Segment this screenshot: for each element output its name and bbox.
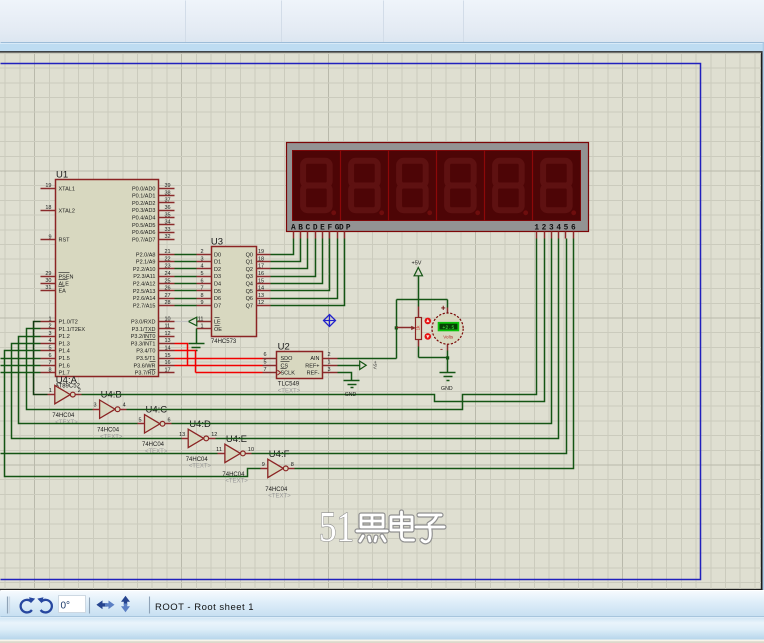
svg-text:17: 17 bbox=[258, 264, 264, 270]
svg-text:U3: U3 bbox=[211, 237, 223, 248]
svg-text:P3.7/RD: P3.7/RD bbox=[135, 371, 156, 377]
svg-text:74HC04: 74HC04 bbox=[186, 457, 209, 463]
svg-text:16: 16 bbox=[258, 271, 264, 277]
svg-text:P3.0/RXD: P3.0/RXD bbox=[131, 320, 155, 326]
svg-text:74HC04: 74HC04 bbox=[97, 428, 120, 434]
svg-text:P0.0/AD0: P0.0/AD0 bbox=[132, 186, 156, 192]
svg-text:P2.7/A15: P2.7/A15 bbox=[133, 303, 156, 309]
svg-text:F: F bbox=[327, 225, 332, 233]
svg-text:U1: U1 bbox=[56, 170, 68, 181]
svg-text:B: B bbox=[298, 225, 303, 233]
svg-text:E: E bbox=[320, 225, 325, 233]
svg-text:74HC04: 74HC04 bbox=[142, 442, 165, 448]
wire U1 P1.2 to U4:C input bbox=[19, 337, 138, 424]
wire U2 REF- to ground bbox=[338, 373, 352, 381]
ground at U3 OE bbox=[189, 344, 205, 351]
svg-text:P1.0/T2: P1.0/T2 bbox=[59, 320, 78, 326]
svg-text:P1.4: P1.4 bbox=[59, 349, 70, 355]
svg-text:13: 13 bbox=[165, 338, 171, 344]
svg-text:LE: LE bbox=[214, 320, 221, 326]
svg-text:P0.5/AD5: P0.5/AD5 bbox=[132, 223, 156, 229]
svg-text:13: 13 bbox=[179, 432, 185, 438]
svg-text:Q2: Q2 bbox=[246, 267, 253, 273]
svg-text:35: 35 bbox=[165, 212, 171, 218]
svg-text:9: 9 bbox=[262, 462, 265, 468]
svg-text:9: 9 bbox=[48, 235, 51, 241]
display DS1 6-digit 7-segment bbox=[287, 143, 589, 239]
inverter U4:C 74HC04 bbox=[138, 404, 172, 455]
svg-text:1: 1 bbox=[534, 225, 539, 233]
svg-text:D: D bbox=[339, 225, 344, 233]
svg-text:12: 12 bbox=[211, 432, 217, 438]
svg-text:P0.1/AD1: P0.1/AD1 bbox=[132, 194, 156, 200]
wire pot bottom to voltmeter minus and ground bbox=[419, 347, 450, 373]
svg-text:P3.1/TXD: P3.1/TXD bbox=[132, 327, 156, 333]
svg-text:2: 2 bbox=[328, 352, 331, 358]
svg-text:P1.6: P1.6 bbox=[59, 363, 70, 369]
ground at U2 REF- bbox=[344, 381, 360, 399]
svg-text:4: 4 bbox=[556, 225, 561, 233]
svg-text:P2.2/A10: P2.2/A10 bbox=[133, 267, 156, 273]
svg-text:Q0: Q0 bbox=[246, 252, 253, 258]
svg-text:Q7: Q7 bbox=[246, 303, 253, 309]
svg-text:XTAL2: XTAL2 bbox=[59, 208, 75, 214]
svg-text:8: 8 bbox=[48, 367, 51, 373]
svg-text:D2: D2 bbox=[214, 267, 221, 273]
svg-text:24: 24 bbox=[165, 271, 171, 277]
svg-text:<TEXT>: <TEXT> bbox=[225, 479, 248, 485]
svg-text:D: D bbox=[313, 225, 318, 233]
svg-text:D5: D5 bbox=[214, 289, 221, 295]
svg-text:10: 10 bbox=[248, 447, 254, 453]
svg-text:XTAL1: XTAL1 bbox=[59, 186, 75, 192]
inverter U4:F 74HC04 bbox=[261, 449, 295, 500]
svg-text:14: 14 bbox=[165, 346, 171, 352]
inverter U4:B 74HC04 bbox=[93, 390, 127, 441]
svg-text:2: 2 bbox=[78, 388, 81, 394]
svg-text:P3.4/T0: P3.4/T0 bbox=[136, 349, 155, 355]
svg-text:P2.5/A13: P2.5/A13 bbox=[133, 289, 156, 295]
svg-text:11: 11 bbox=[198, 316, 204, 322]
power terminal +5V bbox=[412, 261, 423, 276]
svg-text:7: 7 bbox=[48, 360, 51, 366]
svg-text:11: 11 bbox=[165, 324, 171, 330]
inverter U4:A 74HC04 bbox=[48, 375, 82, 426]
svg-text:37: 37 bbox=[165, 198, 171, 204]
svg-text:+2.5: +2.5 bbox=[442, 325, 454, 331]
svg-text:+5V: +5V bbox=[412, 261, 422, 267]
svg-text:Q3: Q3 bbox=[246, 274, 253, 280]
svg-text:16: 16 bbox=[165, 360, 171, 366]
svg-text:D0: D0 bbox=[214, 252, 221, 258]
svg-text:GND: GND bbox=[441, 386, 453, 392]
svg-text:1: 1 bbox=[328, 360, 331, 366]
svg-text:<TEXT>: <TEXT> bbox=[268, 494, 291, 500]
svg-text:7: 7 bbox=[263, 367, 266, 373]
svg-text:6: 6 bbox=[263, 352, 266, 358]
svg-text:P2.6/A14: P2.6/A14 bbox=[133, 296, 156, 302]
junction wiper node bbox=[395, 326, 398, 329]
svg-text:P1.3: P1.3 bbox=[59, 341, 70, 347]
wires U3 Q0-Q7 to display segment pins A-DP bbox=[271, 239, 345, 306]
svg-text:74HC04: 74HC04 bbox=[265, 487, 288, 493]
svg-text:51: 51 bbox=[319, 505, 354, 551]
svg-text:31: 31 bbox=[45, 285, 51, 291]
svg-text:5: 5 bbox=[200, 271, 203, 277]
origin marker node bbox=[324, 315, 336, 327]
svg-text:3: 3 bbox=[94, 403, 97, 409]
svg-text:P3.6/WR: P3.6/WR bbox=[133, 363, 155, 369]
svg-text:38: 38 bbox=[165, 190, 171, 196]
svg-text:1k: 1k bbox=[416, 325, 421, 331]
svg-text:18: 18 bbox=[258, 256, 264, 262]
svg-text:<TEXT>: <TEXT> bbox=[189, 464, 212, 470]
wire U4:C output to display digit pin 3 bbox=[172, 239, 552, 424]
svg-text:4: 4 bbox=[200, 264, 203, 270]
svg-text:3: 3 bbox=[328, 367, 331, 373]
svg-text:P1.2: P1.2 bbox=[59, 334, 70, 340]
wire U1 P1.0 to U4:A input bbox=[34, 322, 48, 395]
wire U4:E output to display digit pin 5 bbox=[252, 239, 567, 454]
svg-text:P1.1/T2EX: P1.1/T2EX bbox=[59, 327, 86, 333]
svg-text:+5V: +5V bbox=[372, 361, 378, 370]
svg-text:<TEXT>: <TEXT> bbox=[100, 434, 123, 440]
wire U1 P1.1 to U4:B input bbox=[27, 329, 93, 410]
inverter U4:E 74HC04 bbox=[216, 434, 254, 485]
input arrow terminal at U3 LE pin 11 bbox=[188, 317, 196, 326]
svg-text:U2: U2 bbox=[278, 342, 290, 353]
svg-text:Q4: Q4 bbox=[246, 282, 253, 288]
svg-text:15: 15 bbox=[165, 353, 171, 359]
svg-text:1: 1 bbox=[48, 316, 51, 322]
wire U1 P1.7 off-sheet left bbox=[1, 372, 41, 374]
svg-text:23: 23 bbox=[165, 264, 171, 270]
svg-text:-: - bbox=[440, 344, 443, 354]
svg-text:26: 26 bbox=[165, 286, 171, 292]
toolbar bbox=[0, 590, 764, 617]
svg-text:U4:A: U4:A bbox=[56, 375, 78, 386]
svg-text:+: + bbox=[441, 304, 446, 313]
svg-text:P0.2/AD2: P0.2/AD2 bbox=[132, 201, 156, 207]
svg-text:19: 19 bbox=[45, 183, 51, 189]
svg-text:39: 39 bbox=[165, 183, 171, 189]
svg-text:2: 2 bbox=[542, 225, 547, 233]
svg-text:5: 5 bbox=[564, 225, 569, 233]
svg-text:5: 5 bbox=[48, 346, 51, 352]
svg-text:P0.7/AD7: P0.7/AD7 bbox=[132, 237, 156, 243]
wire U1 P1.5 off-sheet left bbox=[1, 358, 41, 360]
svg-text:74HC04: 74HC04 bbox=[52, 413, 75, 419]
svg-text:12: 12 bbox=[165, 331, 171, 337]
svg-text:P: P bbox=[346, 225, 351, 233]
red wire to U2 SCLK pin 7 bbox=[196, 372, 263, 374]
wire from left sheet edge to U4:E input bbox=[1, 453, 218, 455]
wire U4:A output to display digit pin 2 bbox=[82, 239, 545, 402]
svg-text:REF-: REF- bbox=[307, 371, 320, 377]
wire U2 REF+ to terminal bbox=[338, 365, 360, 367]
svg-text:P1.5: P1.5 bbox=[59, 356, 70, 362]
svg-text:33: 33 bbox=[165, 227, 171, 233]
svg-text:29: 29 bbox=[45, 271, 51, 277]
svg-text:Q5: Q5 bbox=[246, 289, 253, 295]
svg-text:P3.3/INT1: P3.3/INT1 bbox=[131, 341, 156, 347]
svg-text:14: 14 bbox=[258, 286, 264, 292]
svg-text:EA: EA bbox=[59, 288, 67, 294]
svg-text:2: 2 bbox=[200, 249, 203, 255]
svg-text:3: 3 bbox=[200, 256, 203, 262]
svg-text:5: 5 bbox=[263, 360, 266, 366]
svg-text:Volts: Volts bbox=[443, 335, 454, 340]
svg-text:18: 18 bbox=[45, 205, 51, 211]
svg-text:7: 7 bbox=[200, 286, 203, 292]
svg-text:25: 25 bbox=[165, 278, 171, 284]
watermark 51heizi bbox=[319, 505, 444, 551]
svg-text:3: 3 bbox=[549, 225, 554, 233]
svg-text:OE: OE bbox=[214, 327, 222, 333]
svg-text:Q6: Q6 bbox=[246, 296, 253, 302]
svg-text:22: 22 bbox=[165, 256, 171, 262]
bus wires U1 P2.0-P2.7 to U3 D0-D7 bbox=[175, 255, 197, 306]
svg-text:13: 13 bbox=[258, 293, 264, 299]
svg-text:TLC549: TLC549 bbox=[278, 382, 300, 388]
svg-text:0°: 0° bbox=[61, 600, 71, 611]
svg-text:A: A bbox=[291, 225, 296, 233]
svg-text:REF+: REF+ bbox=[305, 363, 319, 369]
svg-text:SDO: SDO bbox=[281, 356, 294, 362]
potentiometer RV1 bbox=[397, 307, 432, 347]
svg-text:GND: GND bbox=[345, 392, 357, 398]
svg-text:U4:D: U4:D bbox=[189, 419, 211, 430]
latch U3 74HC573 bbox=[197, 237, 271, 345]
svg-text:D7: D7 bbox=[214, 303, 221, 309]
svg-text:32: 32 bbox=[165, 234, 171, 240]
svg-text:17: 17 bbox=[165, 367, 171, 373]
wire U4:B output to display digit pin 1 bbox=[127, 239, 537, 410]
svg-text:P2.1/A9: P2.1/A9 bbox=[136, 260, 156, 266]
svg-text:P0.3/AD3: P0.3/AD3 bbox=[132, 208, 156, 214]
svg-text:1: 1 bbox=[200, 324, 203, 330]
ground at voltmeter bbox=[440, 373, 456, 393]
svg-text:Q1: Q1 bbox=[246, 260, 253, 266]
svg-text:15: 15 bbox=[258, 278, 264, 284]
svg-text:10: 10 bbox=[165, 316, 171, 322]
svg-text:6: 6 bbox=[48, 353, 51, 359]
svg-text:D6: D6 bbox=[214, 296, 221, 302]
red wire to U2 CS pin 5 bbox=[175, 365, 263, 367]
wire wiper net vertical to U2 AIN bbox=[338, 300, 397, 359]
svg-text:74HC573: 74HC573 bbox=[211, 339, 237, 345]
svg-text:U4:E: U4:E bbox=[226, 434, 247, 445]
svg-text:1: 1 bbox=[49, 388, 52, 394]
svg-text:P3.5/T1: P3.5/T1 bbox=[136, 356, 155, 362]
svg-text:5: 5 bbox=[138, 417, 141, 423]
svg-text:6: 6 bbox=[168, 417, 171, 423]
svg-text:4: 4 bbox=[123, 403, 126, 409]
svg-text:RST: RST bbox=[59, 238, 71, 244]
wire U4:D output to display digit pin 4 bbox=[216, 239, 559, 439]
svg-text:U4:F: U4:F bbox=[269, 449, 290, 460]
svg-text:2: 2 bbox=[48, 324, 51, 330]
svg-text:AIN: AIN bbox=[310, 356, 319, 362]
svg-text:P2.0/A8: P2.0/A8 bbox=[136, 252, 156, 258]
wire U3 OE to ground bbox=[196, 329, 198, 344]
output arrow terminal at U2 REF+ bbox=[360, 361, 378, 370]
ADC U2 TLC549 bbox=[263, 342, 338, 395]
svg-text:P2.4/A12: P2.4/A12 bbox=[133, 282, 156, 288]
wire U1 P1.6 off-sheet left bbox=[1, 365, 41, 367]
red wire U1 P3.3/INT1 to U2 CS bbox=[175, 344, 188, 366]
svg-text:6: 6 bbox=[200, 278, 203, 284]
svg-text:27: 27 bbox=[165, 293, 171, 299]
ghost wire at U1 P3.0 bbox=[175, 321, 189, 323]
svg-text:3: 3 bbox=[48, 331, 51, 337]
inverter U4:D 74HC04 bbox=[179, 419, 217, 470]
svg-text:<TEXT>: <TEXT> bbox=[278, 389, 301, 395]
svg-text:36: 36 bbox=[165, 205, 171, 211]
svg-text:C: C bbox=[306, 225, 311, 233]
red wire U1 P3.4/T0 to U2 SCLK bbox=[175, 351, 196, 373]
svg-text:P2.3/A11: P2.3/A11 bbox=[133, 274, 155, 280]
wire U1 P1.4 to U4:F input bbox=[5, 351, 261, 477]
svg-text:D3: D3 bbox=[214, 274, 221, 280]
microcontroller U1 AT89C52 bbox=[41, 170, 175, 390]
svg-text:P0.4/AD4: P0.4/AD4 bbox=[132, 216, 156, 222]
svg-text:11: 11 bbox=[216, 447, 222, 453]
wire voltmeter + to wiper net bbox=[397, 300, 448, 308]
svg-text:30: 30 bbox=[45, 278, 51, 284]
svg-text:19: 19 bbox=[258, 249, 264, 255]
svg-text:34: 34 bbox=[165, 220, 171, 226]
svg-text:8: 8 bbox=[291, 462, 294, 468]
voltmeter bbox=[432, 304, 463, 355]
svg-text:D4: D4 bbox=[214, 282, 221, 288]
svg-text:D1: D1 bbox=[214, 260, 221, 266]
svg-text:ROOT - Root sheet 1: ROOT - Root sheet 1 bbox=[155, 602, 254, 613]
wire U4:F output to display digit pin 6 bbox=[295, 239, 574, 469]
wire U1 P1.3 to U4:D input bbox=[12, 344, 182, 439]
svg-text:12: 12 bbox=[258, 300, 264, 306]
wire +5V to RV1 top bbox=[418, 276, 420, 307]
svg-text:28: 28 bbox=[165, 300, 171, 306]
svg-text:8: 8 bbox=[200, 293, 203, 299]
red wire U1 P3.5/T1 to U2 SDO bbox=[175, 358, 263, 360]
svg-text:SCLK: SCLK bbox=[281, 371, 296, 377]
svg-text:9: 9 bbox=[200, 300, 203, 306]
sheet border bbox=[1, 64, 701, 580]
svg-text:4: 4 bbox=[48, 338, 51, 344]
svg-text:6: 6 bbox=[571, 225, 576, 233]
svg-text:21: 21 bbox=[165, 249, 171, 255]
svg-text:P0.6/AD6: P0.6/AD6 bbox=[132, 230, 156, 236]
